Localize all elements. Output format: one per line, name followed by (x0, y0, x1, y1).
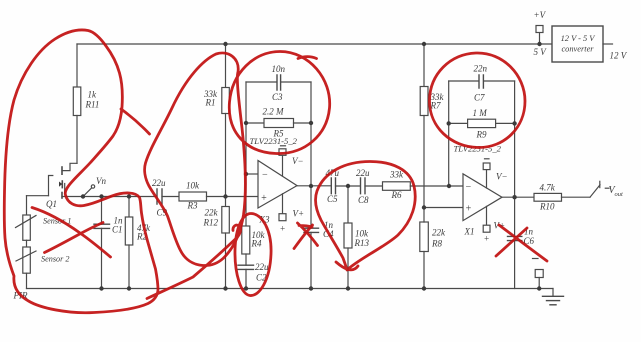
node Vn (83, 185, 95, 197)
resistor R9 1M (449, 119, 515, 127)
red annotations (4, 30, 547, 313)
svg-text:−: − (465, 182, 472, 193)
resistor R2 47k (125, 197, 133, 289)
svg-text:R13: R13 (354, 238, 370, 248)
wire op2 output (502, 196, 534, 198)
transistor Q1 (27, 163, 78, 198)
capacitor C2 22u (238, 265, 254, 288)
svg-text:12 V - 5 V: 12 V - 5 V (561, 34, 596, 43)
port Vminus ground tie (533, 259, 544, 289)
resistor R5 2.2M (246, 119, 311, 128)
resistor R4 10k (242, 226, 250, 265)
svg-text:1 M: 1 M (473, 108, 488, 118)
svg-text:+V: +V (534, 10, 547, 20)
svg-text:TLV2231-5_2: TLV2231-5_2 (250, 136, 298, 146)
sensor 1 (16, 196, 37, 241)
svg-text:out: out (615, 191, 624, 198)
svg-text:22u: 22u (152, 178, 166, 188)
capacitor C6 1n (508, 197, 522, 288)
svg-text:C5: C5 (327, 194, 338, 204)
svg-text:R8: R8 (431, 239, 442, 249)
svg-text:C8: C8 (358, 195, 369, 205)
svg-text:+: + (280, 224, 286, 234)
svg-text:33k: 33k (389, 170, 404, 180)
capacitor C4 1n (304, 186, 319, 289)
svg-text:22u: 22u (356, 168, 370, 178)
svg-text:C7: C7 (474, 93, 485, 103)
red balloon tail swoosh (147, 225, 241, 298)
svg-text:R10: R10 (539, 202, 555, 212)
switch output Vout (590, 181, 609, 197)
resistor R8 22k (420, 208, 429, 289)
svg-text:C3: C3 (272, 92, 283, 102)
resistor R7 33k (420, 44, 428, 208)
red loop R1 R3 R12 (145, 53, 246, 266)
svg-text:22n: 22n (474, 64, 488, 74)
op-amp X3 (258, 146, 297, 221)
resistor R1 33k (222, 44, 230, 197)
port +V (536, 26, 543, 45)
svg-text:10k: 10k (186, 181, 200, 191)
svg-text:R12: R12 (203, 218, 219, 228)
svg-text:R1: R1 (205, 98, 216, 108)
svg-text:V−: V− (496, 172, 508, 182)
svg-text:R11: R11 (85, 100, 100, 110)
red X over sensors stroke1 (32, 208, 111, 258)
red loop left balloon (4, 30, 158, 313)
svg-text:+: + (465, 204, 472, 215)
wire feedback2 left column (448, 81, 450, 186)
svg-text:4.7k: 4.7k (540, 183, 556, 193)
svg-text:R4: R4 (251, 239, 262, 249)
svg-text:2.2 M: 2.2 M (263, 107, 285, 117)
resistor R10 4.7k (534, 193, 590, 201)
svg-text:−: − (262, 170, 269, 181)
red loop feedback1 (229, 52, 329, 154)
capacitor C9 22u (157, 189, 179, 204)
wire bottom ground rail (27, 288, 554, 290)
red X over C6 (496, 225, 547, 261)
svg-text:+: + (484, 234, 490, 244)
op-amp X1 (463, 159, 502, 232)
capacitor C1 1n (94, 197, 110, 289)
wire feedback1 left column (245, 82, 247, 226)
red balloon inner branch (121, 109, 150, 134)
svg-text:1k: 1k (88, 90, 98, 100)
wire op2 plus input (424, 207, 463, 209)
svg-text:10n: 10n (272, 64, 286, 74)
red loop R4 C2 (235, 214, 271, 296)
svg-text:12 V: 12 V (610, 51, 628, 61)
red X over sensors stroke2 (45, 223, 104, 253)
capacitor C3 10n (246, 75, 311, 90)
wire op1 minus input (246, 173, 258, 175)
svg-text:V−: V− (292, 156, 304, 166)
svg-text:Q1: Q1 (46, 199, 57, 209)
capacitor C7 22n (449, 75, 515, 88)
resistor R6 33k (383, 182, 464, 191)
capacitor C5 47u (331, 178, 360, 194)
ground (543, 289, 564, 305)
sensor 2 (16, 240, 36, 288)
converter U2 12V-5V (552, 26, 613, 62)
svg-text:5 V: 5 V (534, 47, 548, 57)
red X over C4 (294, 223, 318, 249)
svg-text:22k: 22k (432, 228, 446, 238)
red loop C5 C8 R6 R13 (315, 162, 415, 271)
resistor R11 1k (73, 44, 81, 163)
svg-text:Vn: Vn (96, 176, 106, 186)
wire feedback2 right column (514, 81, 516, 197)
svg-text:22k: 22k (205, 208, 219, 218)
resistor R12 22k (222, 197, 230, 289)
red loop C5 bottom tick (336, 262, 358, 270)
svg-text:Sensor 2: Sensor 2 (41, 255, 69, 264)
wire feedback1 right column (310, 82, 312, 186)
resistor R3 10k (179, 192, 258, 201)
svg-text:10k: 10k (355, 229, 369, 239)
resistor R13 10k (344, 186, 352, 289)
svg-text:V+: V+ (293, 209, 305, 219)
red loop feedback2 (429, 53, 525, 148)
svg-text:R6: R6 (391, 190, 402, 200)
wire top +5V rail (77, 43, 552, 45)
svg-text:X1: X1 (464, 227, 475, 237)
svg-text:converter: converter (561, 45, 594, 54)
red loop feedback1 tail (298, 57, 317, 59)
svg-text:C1: C1 (112, 225, 123, 235)
svg-text:R3: R3 (187, 201, 198, 211)
wire main signal line stage1 (62, 196, 157, 198)
capacitor C8 22u (361, 178, 383, 194)
wire op1 output (297, 185, 331, 187)
svg-text:R9: R9 (476, 130, 487, 140)
svg-text:22u: 22u (255, 262, 269, 272)
svg-text:+: + (261, 193, 268, 204)
